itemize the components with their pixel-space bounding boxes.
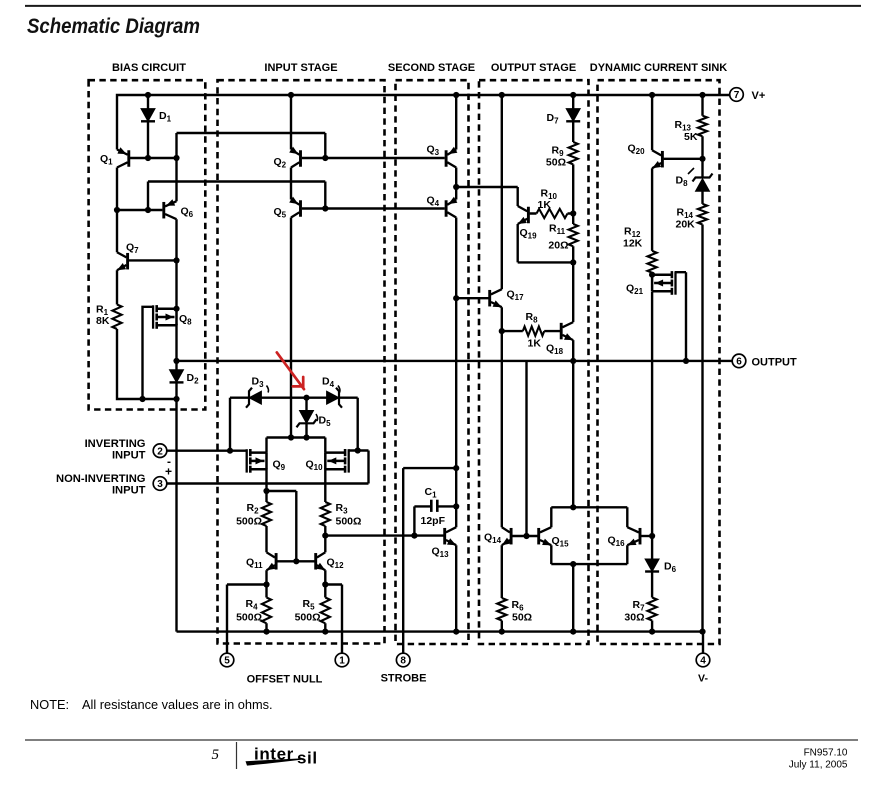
resistor R5 500ohm: [295, 598, 330, 624]
mosfet Q21: [626, 271, 676, 296]
wire: R4 leads: [265, 585, 267, 632]
mosfet Q8: [153, 305, 192, 329]
footer rule: [25, 739, 858, 741]
pin 7 V+: [730, 88, 766, 102]
wire: R1 bottom to bias bottom wire: [117, 329, 177, 399]
wire: link down to Q2 base node: [324, 133, 326, 158]
wire: Q7 base wire: [129, 259, 177, 261]
resistor R11 20ohm: [548, 223, 577, 252]
wire: dynamic sink rail (Q20 collector): [651, 95, 653, 150]
svg-text:500Ω: 500Ω: [236, 612, 262, 624]
wire: R3 bottom to Q12 collector: [324, 526, 326, 552]
svg-text:2: 2: [157, 446, 163, 457]
wire: Q20 emitter to R12: [651, 168, 653, 251]
wire: R12 to Q21 drain: [651, 273, 653, 275]
pin 3 non-inverting input: [56, 473, 167, 497]
svg-text:500Ω: 500Ω: [336, 516, 362, 528]
wire: D1 top lead: [147, 95, 149, 109]
wire: Q21 gate to output: [675, 272, 686, 361]
wire: Q10 source down to R3: [324, 469, 326, 502]
wire: R10 leads: [530, 212, 574, 214]
transistor Q4: [427, 195, 458, 218]
capacitor C1 12pF: [414, 486, 456, 536]
wire: node to Q11/Q12 base: [267, 491, 297, 561]
resistor R10 1K: [537, 188, 568, 219]
wire: bias rail down to bottom bus: [175, 399, 177, 632]
wire: bias right rail upper segment: [175, 133, 177, 201]
svg-text:INPUT: INPUT: [112, 450, 146, 462]
intersil logo: [246, 744, 318, 767]
wire: D1 bottom lead to Q1 base node: [147, 121, 149, 158]
wire: R8 leads: [502, 330, 561, 332]
wire: D5 leads: [305, 398, 307, 438]
wire: Q8 gate loop: [143, 307, 153, 399]
dashed box: INPUT STAGE: [218, 62, 385, 644]
wire: Q20 base wire: [664, 158, 703, 160]
wire: bias left rail lower (Q7 emitter to R1): [116, 270, 118, 304]
svg-text:+: +: [165, 465, 172, 479]
wire: mirror bottom to bus: [572, 564, 574, 632]
wire: Q13 emitter to bus: [455, 545, 457, 631]
resistor R7 30ohm: [624, 598, 656, 624]
wire: Q18 emitter to output node: [572, 340, 574, 361]
wire: Q9/Q10 drain wire: [267, 436, 326, 438]
transistor Q2: [274, 147, 301, 170]
wire: link down from Q6 base node: [147, 182, 149, 211]
svg-text:FN957.10: FN957.10: [804, 748, 848, 759]
svg-text:500Ω: 500Ω: [295, 612, 321, 624]
wire: Q2 to Q3 base wire: [302, 157, 445, 159]
wire: R13/D8/R14 rail: [701, 95, 703, 632]
pin 1 offset null: [247, 653, 349, 685]
svg-text:sil: sil: [297, 748, 318, 767]
svg-text:12K: 12K: [623, 238, 643, 250]
wire: Q11 emitter node to offset null pin 5: [227, 570, 267, 653]
wire: R5 leads: [324, 585, 326, 632]
svg-text:50Ω: 50Ω: [512, 612, 532, 624]
svg-text:50Ω: 50Ω: [546, 157, 566, 169]
wire: D3 branch down to Q9 gate: [229, 398, 231, 451]
wire: Q6 collector rail down to Q8: [175, 219, 177, 309]
svg-text:DYNAMIC CURRENT SINK: DYNAMIC CURRENT SINK: [590, 62, 728, 74]
wire: Q1/Q2 base link: [177, 132, 326, 134]
transistor Q16: [608, 527, 641, 548]
wire: Q6/Q5 base link: [148, 180, 325, 182]
wire: R6 bottom to bus: [501, 621, 503, 632]
wire: Q5 to Q4 base wire: [302, 207, 445, 209]
pin 2 inverting input: [85, 438, 172, 479]
resistor R6 50ohm: [497, 598, 532, 624]
diode D6: [645, 559, 676, 574]
svg-text:4: 4: [700, 656, 706, 667]
resistor R4 500ohm: [236, 598, 271, 624]
svg-text:20K: 20K: [676, 219, 696, 231]
wire: strobe branch: [403, 468, 456, 653]
transistor Q6: [164, 199, 194, 219]
transistor Q11: [246, 552, 276, 570]
transistor Q14: [484, 527, 511, 545]
svg-text:20Ω: 20Ω: [548, 240, 568, 252]
svg-text:5K: 5K: [684, 131, 698, 143]
svg-text:1K: 1K: [538, 199, 552, 211]
wire: long feedback/output wire: [177, 360, 733, 362]
wire: R7 to bus: [651, 621, 653, 632]
svg-text:1: 1: [339, 656, 345, 667]
svg-text:5: 5: [224, 656, 230, 667]
zener diode D8: [676, 168, 713, 191]
wire: Q17 emitter down to Q14 collector: [501, 307, 503, 527]
wire: Q19 emitter loop: [518, 224, 574, 262]
svg-text:BIAS CIRCUIT: BIAS CIRCUIT: [112, 62, 186, 74]
wire: Q9 source down to R2: [265, 469, 267, 502]
svg-text:SECOND STAGE: SECOND STAGE: [388, 62, 475, 74]
wire: Q16 base wire: [640, 535, 652, 537]
resistor R8 1K: [523, 311, 544, 350]
wire: D2 bottom lead: [175, 383, 177, 399]
resistor R1 8K: [96, 304, 122, 330]
transistor Q12: [316, 552, 344, 570]
transistor Q15: [539, 527, 569, 548]
wire: D4 branch down to Q10 gate: [357, 398, 359, 451]
dashed box: OUTPUT STAGE: [479, 62, 589, 644]
dashed box: BIAS CIRCUIT: [89, 62, 206, 410]
wire: bias left rail upper (Q1 collector): [116, 168, 118, 253]
wire: Q21 source down to Q16 base node and D6: [651, 292, 653, 559]
wire: V+ top rail: [117, 95, 730, 150]
wire: output stage left rail upper (Q17 collector): [501, 95, 503, 289]
svg-text:12pF: 12pF: [421, 515, 446, 527]
svg-text:8: 8: [400, 656, 406, 667]
svg-text:6: 6: [736, 357, 742, 368]
diode D2: [170, 370, 200, 386]
diode D1: [141, 109, 172, 124]
wire: Q6 base wire: [117, 209, 162, 211]
wire: Q9 drain stub to drain wire: [265, 438, 267, 453]
wire: R2 bottom to Q11 collector: [265, 526, 267, 552]
wire: Q4 collector down through strobe node to Q13 collector: [455, 218, 457, 528]
wire: Q18 collector: [572, 262, 574, 322]
svg-text:8K: 8K: [96, 315, 110, 327]
pin 5 offset null: [220, 653, 234, 667]
transistor Q1: [100, 147, 129, 167]
wire: Q15/Q16 collector box: [551, 507, 627, 564]
transistor Q18: [546, 322, 573, 356]
transistor Q17: [490, 289, 524, 308]
dashed box: SECOND STAGE: [388, 62, 475, 644]
mosfet Q9: [247, 449, 286, 473]
transistor Q13: [432, 527, 457, 559]
diode D7: [547, 109, 581, 126]
transistor Q3: [427, 144, 458, 168]
wire: output node down to Q15/Q16 mirror: [572, 361, 574, 507]
mosfet Q10: [306, 449, 349, 473]
wire: Q17 base wire: [456, 297, 488, 299]
svg-text:All resistance values are in o: All resistance values are in ohms.: [82, 697, 273, 712]
svg-text:INPUT: INPUT: [112, 485, 146, 497]
wire: R3/C1/Q13 base wire: [325, 534, 443, 536]
svg-text:NON-INVERTING: NON-INVERTING: [56, 473, 146, 485]
svg-text:5: 5: [212, 747, 220, 763]
svg-text:OUTPUT STAGE: OUTPUT STAGE: [491, 62, 576, 74]
resistor R2 500ohm: [236, 502, 271, 528]
svg-text:V+: V+: [752, 90, 766, 102]
zener diode D5: [297, 411, 332, 429]
dashed box: DYNAMIC CURRENT SINK: [590, 62, 728, 644]
wire: Q10 drain stub: [324, 438, 326, 453]
wire: Q14/Q15 base wire: [512, 535, 537, 537]
wire: D6 to R7: [651, 572, 653, 598]
svg-text:7: 7: [734, 90, 740, 101]
pin 8 strobe: [381, 653, 427, 684]
wire: non-inverting input to Q10 gate: [167, 451, 369, 484]
transistor Q7: [117, 242, 139, 271]
wire: Q14 emitter to R6: [501, 545, 503, 598]
wire: D7/R9 rail: [572, 95, 574, 262]
resistor R9 50ohm: [546, 142, 578, 169]
red annotation arrow: [277, 352, 304, 389]
top rule: [25, 5, 861, 7]
wire: link down to Q5 base node: [324, 182, 326, 209]
pin 6 OUTPUT: [732, 354, 797, 368]
wire: Q11/Q12 base wire: [278, 560, 315, 562]
resistor R13 5K: [675, 116, 708, 143]
transistor Q19: [518, 206, 537, 241]
svg-text:INVERTING: INVERTING: [85, 438, 146, 450]
svg-text:1K: 1K: [528, 338, 542, 350]
svg-text:30Ω: 30Ω: [624, 612, 644, 624]
wire: Q3 collector to Q4 emitter: [455, 168, 457, 200]
svg-text:V-: V-: [698, 673, 708, 685]
footer divider: [236, 742, 238, 769]
wire: output to Q14/Q15 base drive: [525, 361, 527, 536]
wire: Q2 collector to Q5 emitter: [290, 168, 292, 200]
pin 4 V-: [696, 653, 710, 684]
svg-text:STROBE: STROBE: [381, 673, 427, 685]
wire: Q5 collector down to sources node: [290, 218, 292, 438]
wire: D3/D4 anode wire: [230, 397, 358, 399]
resistor R14 20K: [676, 204, 708, 231]
svg-text:OUTPUT: OUTPUT: [752, 357, 798, 369]
wire: second stage rail (Q3 emitter): [455, 95, 457, 150]
resistor R12 12K: [623, 226, 657, 273]
wire: Q1 base wire: [130, 157, 177, 159]
svg-text:500Ω: 500Ω: [236, 516, 262, 528]
svg-text:INPUT STAGE: INPUT STAGE: [264, 62, 337, 74]
wire: inverting input to Q9 gate: [167, 450, 247, 452]
svg-text:July 11, 2005: July 11, 2005: [789, 760, 848, 771]
zener diode D4: [322, 376, 342, 408]
wire: bottom V- bus: [177, 632, 704, 654]
wire: Q8 source to D2: [175, 324, 177, 370]
transistor Q20: [628, 143, 663, 169]
svg-text:Schematic Diagram: Schematic Diagram: [27, 15, 200, 38]
wire: Q3/Q4 node to Q19 collector: [456, 187, 518, 206]
svg-text:OFFSET NULL: OFFSET NULL: [247, 674, 323, 686]
wire: Q12 emitter node to offset null pin 1: [325, 570, 342, 653]
zener diode D3: [246, 376, 269, 408]
transistor Q5: [274, 197, 301, 220]
wire: input tail rail (Q2 emitter): [290, 95, 292, 150]
svg-text:NOTE:: NOTE:: [30, 697, 69, 712]
resistor R3 500ohm: [321, 502, 362, 528]
svg-text:3: 3: [157, 479, 163, 490]
